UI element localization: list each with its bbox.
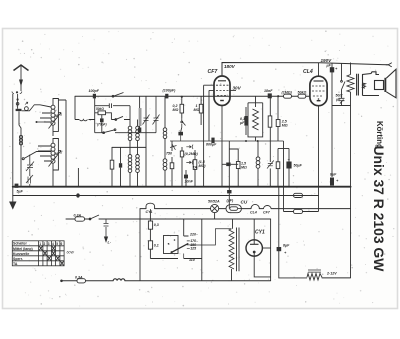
svg-text:µF: µF — [239, 121, 245, 125]
svg-text:8µF: 8µF — [283, 244, 290, 248]
svg-text:18nF: 18nF — [264, 89, 273, 93]
svg-text:50kΩ: 50kΩ — [96, 107, 104, 111]
svg-text:3: 3 — [48, 242, 50, 246]
svg-text:4: 4 — [52, 242, 54, 246]
svg-text:30V: 30V — [233, 86, 242, 91]
svg-text:(100pF): (100pF) — [163, 89, 177, 93]
svg-text:Kurzwelle: Kurzwelle — [13, 252, 29, 256]
svg-text:0,3A: 0,3A — [75, 276, 83, 280]
svg-text:MΩ: MΩ — [282, 123, 288, 127]
svg-text:TA: TA — [13, 262, 18, 266]
svg-text:800µF: 800µF — [206, 143, 217, 147]
svg-text:CY1: CY1 — [146, 210, 153, 214]
svg-text:190V: 190V — [321, 58, 333, 63]
svg-text:CF7: CF7 — [208, 69, 219, 75]
svg-text:CU: CU — [241, 200, 248, 205]
svg-text:50µF: 50µF — [294, 164, 303, 168]
svg-text:CY1: CY1 — [255, 230, 265, 236]
svg-text:2: 2 — [44, 242, 46, 246]
svg-text:TA: TA — [193, 166, 198, 170]
svg-text:100pF: 100pF — [89, 89, 100, 93]
svg-text:CF7: CF7 — [263, 211, 271, 215]
svg-text:0,1: 0,1 — [154, 244, 159, 248]
svg-text:180V: 180V — [224, 64, 236, 69]
svg-text:µF: µF — [335, 97, 341, 101]
svg-text:Mittel (lang): Mittel (lang) — [13, 247, 33, 251]
svg-text:110: 110 — [189, 258, 195, 262]
svg-text:µF: µF — [326, 64, 332, 68]
svg-text:(µF): (µF) — [227, 199, 234, 203]
svg-text:Schalter: Schalter — [13, 242, 27, 246]
svg-text:8µF: 8µF — [330, 173, 337, 177]
svg-text:50/52A: 50/52A — [208, 200, 220, 204]
svg-text:Unix 37 R 2103 GW: Unix 37 R 2103 GW — [371, 146, 387, 273]
svg-text:MΩ: MΩ — [241, 166, 247, 170]
svg-text:CL4: CL4 — [250, 211, 257, 215]
svg-text:CL4: CL4 — [303, 69, 313, 75]
svg-text:6: 6 — [61, 242, 63, 246]
svg-text:220–: 220– — [189, 233, 198, 237]
svg-text:(70pF): (70pF) — [97, 123, 107, 127]
svg-text:50kΩ: 50kΩ — [298, 91, 307, 95]
svg-text:0,3: 0,3 — [154, 223, 159, 227]
svg-text:(1MΩ): (1MΩ) — [282, 91, 293, 95]
svg-text:2·12V: 2·12V — [326, 272, 337, 276]
svg-text:5µF: 5µF — [17, 190, 24, 194]
svg-text:1: 1 — [39, 242, 41, 246]
svg-text:5: 5 — [56, 242, 58, 246]
svg-text:60W: 60W — [67, 251, 75, 255]
svg-text:10nF: 10nF — [185, 180, 194, 184]
svg-text:MΩ: MΩ — [194, 108, 200, 112]
svg-text:0,3A: 0,3A — [74, 214, 82, 218]
svg-text:MΩ): MΩ) — [199, 164, 207, 168]
svg-text:125: 125 — [190, 247, 197, 251]
svg-text:MΩ: MΩ — [173, 108, 179, 112]
svg-text:750: 750 — [166, 152, 172, 156]
svg-text:Sperr.: Sperr. — [13, 257, 23, 261]
svg-text:L·: L· — [108, 241, 111, 245]
svg-text:(0,2MΩ): (0,2MΩ) — [185, 152, 199, 156]
